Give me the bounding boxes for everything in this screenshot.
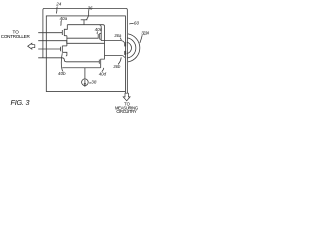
node bus vertical bbox=[66, 36, 68, 46]
svg-text:40b: 40b bbox=[58, 71, 66, 76]
current source 38 stub bbox=[84, 68, 86, 79]
transistor 40c bbox=[98, 25, 101, 41]
svg-text:FIG. 3: FIG. 3 bbox=[11, 98, 30, 107]
leader for 36a bbox=[120, 38, 121, 41]
label 40d bbox=[99, 72, 107, 77]
transistor 40b bbox=[61, 46, 67, 56]
electrode plate 36a bbox=[124, 42, 126, 46]
wire node A to electrode 36a bbox=[101, 41, 124, 43]
leader for 40a bbox=[60, 20, 63, 26]
hollow arrow to measuring circuitry bbox=[123, 93, 130, 101]
wire L4 gate of 40d bbox=[38, 58, 99, 62]
label 36 bbox=[88, 5, 93, 10]
leader for 40d bbox=[102, 68, 104, 72]
svg-text:CIRCUITRY: CIRCUITRY bbox=[116, 109, 137, 114]
svg-text:36b: 36b bbox=[113, 64, 121, 69]
svg-text:36: 36 bbox=[88, 5, 93, 10]
wire L1 gate of 40a bbox=[38, 32, 62, 34]
text TO CONTROLLER bbox=[1, 30, 31, 39]
svg-text:40a: 40a bbox=[60, 16, 68, 21]
wire node B to electrode 36b bbox=[105, 55, 125, 57]
leader for 32,34 bbox=[140, 35, 142, 43]
wire node to gate of 40c bbox=[67, 37, 98, 39]
svg-text:40c: 40c bbox=[95, 27, 103, 32]
transducer wave arc inner bbox=[127, 42, 132, 53]
leader for 40b bbox=[61, 53, 62, 71]
label 36b bbox=[113, 64, 121, 69]
svg-text:36a: 36a bbox=[114, 33, 122, 38]
hollow arrow to controller bbox=[28, 43, 35, 49]
transducer wave arc outer bbox=[128, 34, 140, 62]
leader for 24 bbox=[56, 7, 57, 14]
wire 36 to terminal bbox=[87, 10, 89, 20]
wire box edge to measuring bbox=[124, 92, 126, 94]
label 40a bbox=[60, 16, 68, 21]
electrode plate 36b bbox=[124, 51, 126, 55]
terminal 36 stub bbox=[83, 20, 85, 25]
label 24 bbox=[55, 2, 62, 7]
text FIG. 3 bbox=[11, 98, 30, 107]
wire L3 gate of 40b bbox=[38, 48, 61, 50]
leader for 60 bbox=[129, 22, 133, 25]
leader for 36b bbox=[118, 57, 121, 64]
bottom rail wire bbox=[62, 67, 100, 69]
svg-text:24: 24 bbox=[55, 2, 62, 7]
label 40c bbox=[95, 27, 103, 32]
leader for 40c bbox=[96, 32, 99, 34]
label 32,34 bbox=[141, 30, 149, 35]
terminal 36 bar bbox=[81, 19, 88, 21]
label 40b bbox=[58, 71, 66, 76]
wire L2 gate of 40c bbox=[38, 41, 104, 44]
outer box 24 bbox=[46, 16, 125, 92]
svg-text:40d: 40d bbox=[99, 72, 107, 77]
svg-text:CONTROLLER: CONTROLLER bbox=[1, 34, 31, 39]
svg-text:38: 38 bbox=[91, 80, 97, 85]
transistor 40a bbox=[62, 25, 67, 36]
top rail wire bbox=[67, 25, 104, 56]
label 60 bbox=[134, 21, 140, 26]
current source 38 circle bbox=[82, 79, 89, 86]
svg-text:32,34: 32,34 bbox=[141, 30, 149, 35]
label 38 bbox=[91, 80, 97, 85]
transistor 40d bbox=[99, 55, 104, 67]
outer sense wire 60 bbox=[43, 8, 127, 93]
svg-text:60: 60 bbox=[134, 21, 140, 26]
label 36a bbox=[114, 33, 122, 38]
text TO MEASURING CIRCUITRY bbox=[115, 101, 138, 114]
transducer wave arc middle bbox=[127, 38, 135, 58]
current source arrow bbox=[84, 80, 86, 84]
leader for 38 bbox=[89, 82, 91, 85]
